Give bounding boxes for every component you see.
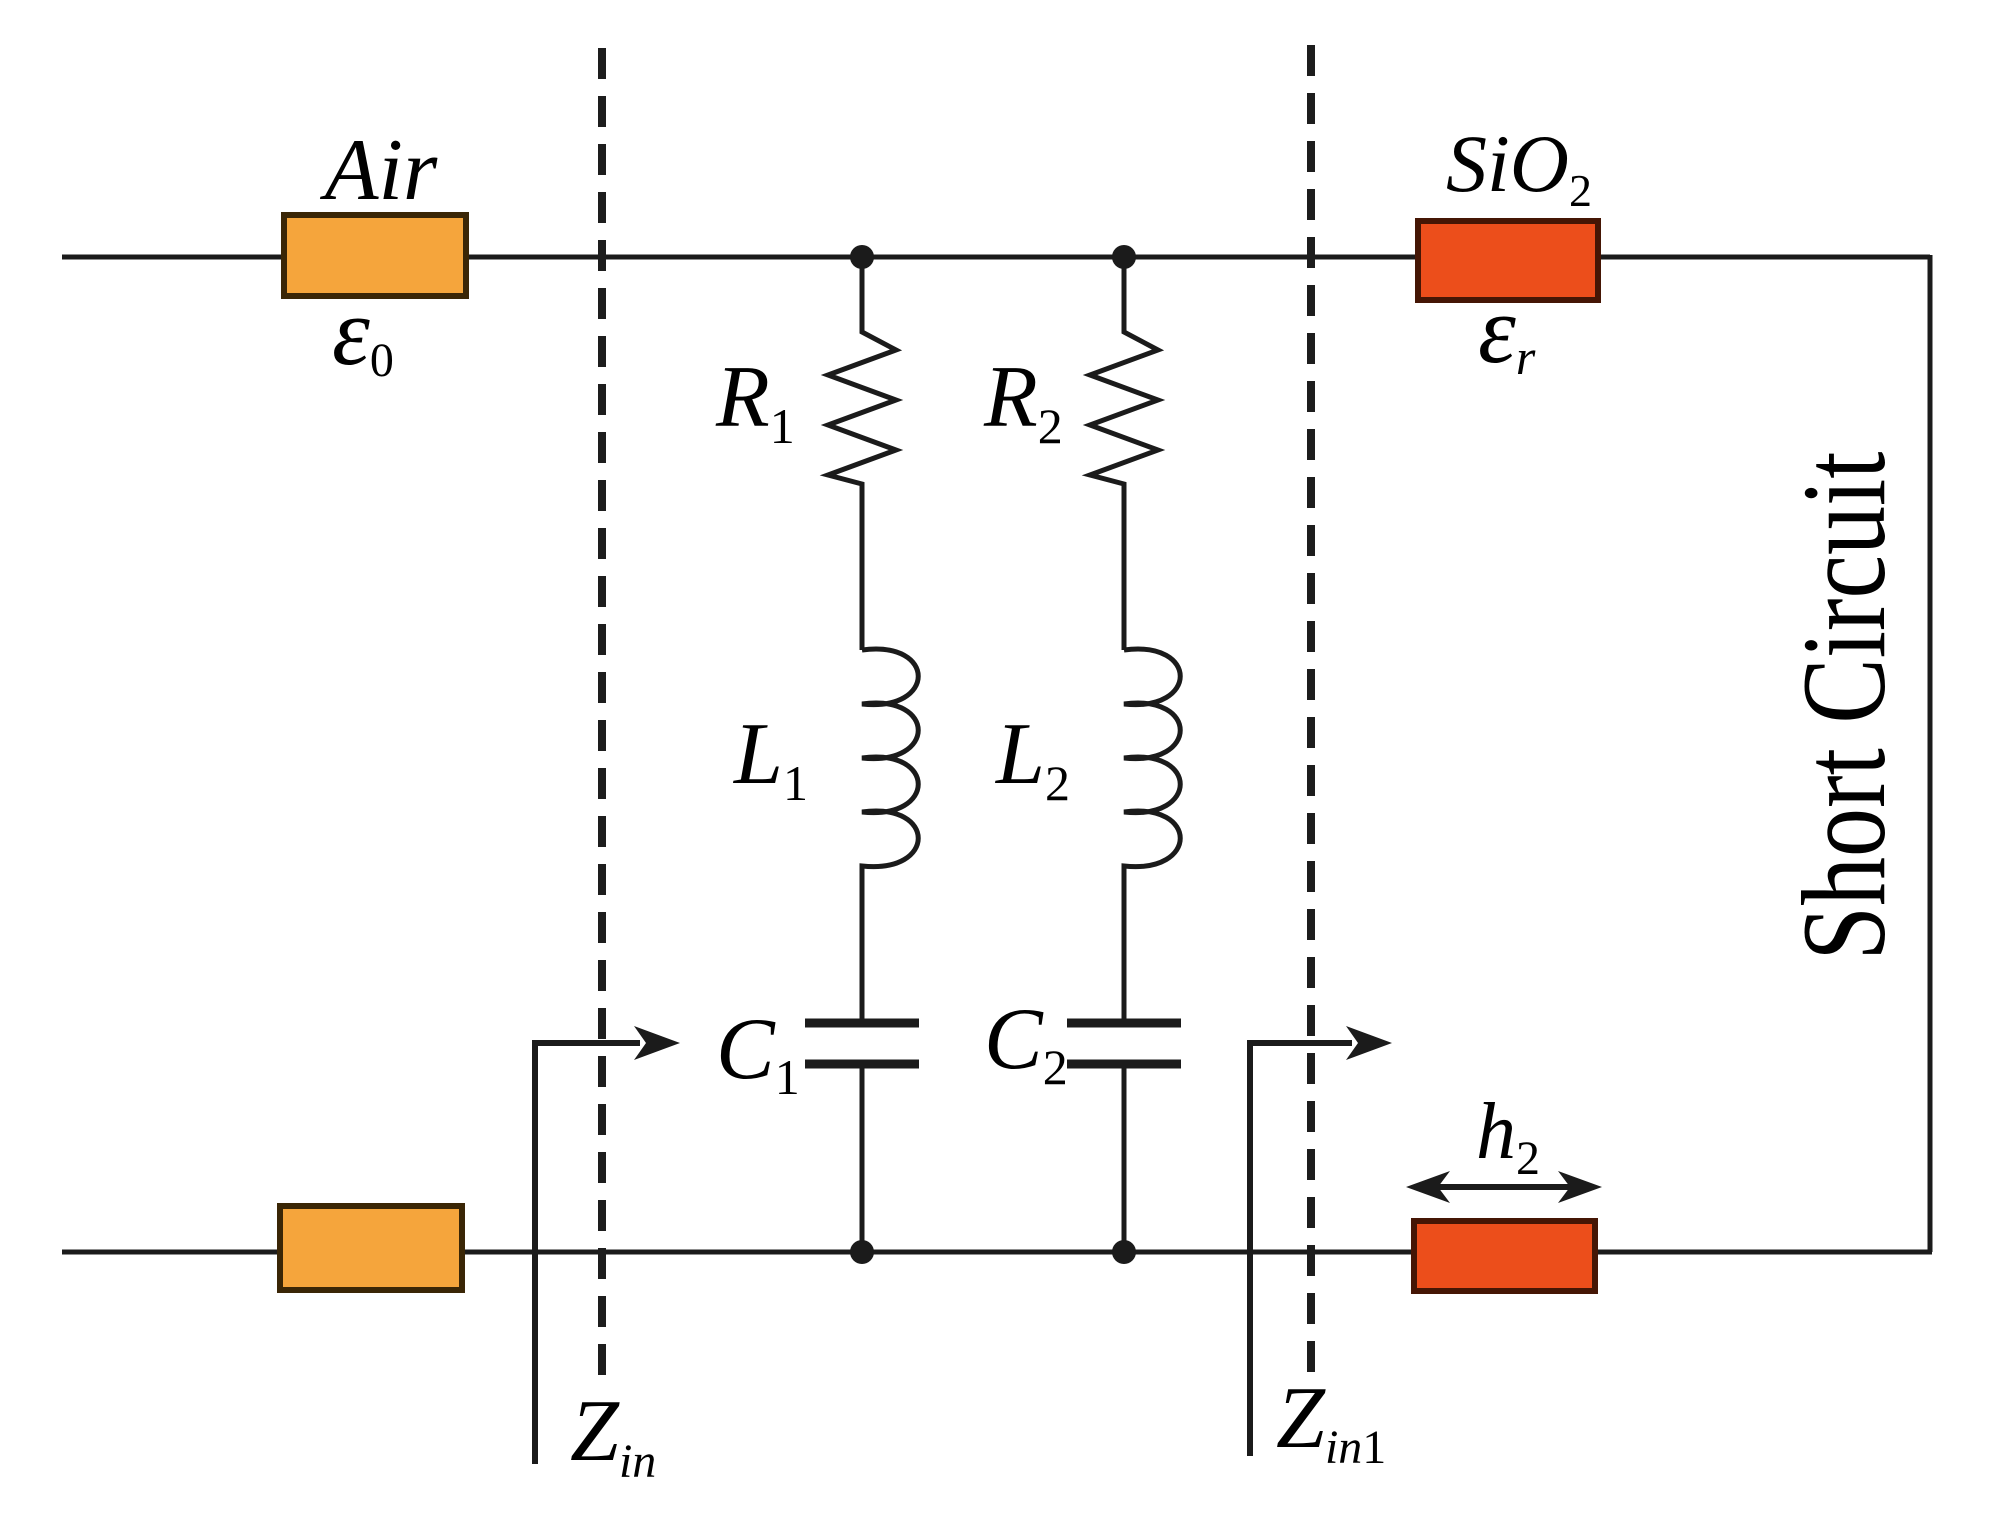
svg-text:Air: Air xyxy=(320,122,438,219)
Zin1 measurement arrow xyxy=(1250,1043,1352,1456)
resistor R1 xyxy=(828,257,896,650)
inductor L2 xyxy=(1124,649,1180,1019)
Zin measurement arrow xyxy=(535,1043,640,1464)
air slab box top-left xyxy=(284,215,466,296)
wire bottom horizontal xyxy=(62,1250,1932,1255)
inductor L1 xyxy=(862,649,918,1019)
node dot bottom 1 xyxy=(850,1240,874,1264)
air slab box bottom-left xyxy=(280,1206,462,1290)
SiO2 slab box bottom-right xyxy=(1414,1221,1595,1291)
capacitor C1 xyxy=(805,1019,919,1028)
dashed reference plane line right xyxy=(1307,45,1315,1385)
svg-text:Short Circuit: Short Circuit xyxy=(1777,452,1910,961)
node dot bottom 2 xyxy=(1112,1240,1136,1264)
h2 dimension arrow xyxy=(1424,1184,1586,1190)
node dot top 1 xyxy=(850,245,874,269)
wire top horizontal xyxy=(62,255,1930,260)
wire right vertical (short circuit side) xyxy=(1928,255,1933,1252)
SiO2 slab box top-right xyxy=(1418,221,1598,300)
resistor R2 xyxy=(1090,257,1158,650)
node dot top 2 xyxy=(1112,245,1136,269)
dashed reference plane line left xyxy=(598,48,606,1385)
capacitor C2 xyxy=(1067,1019,1181,1028)
